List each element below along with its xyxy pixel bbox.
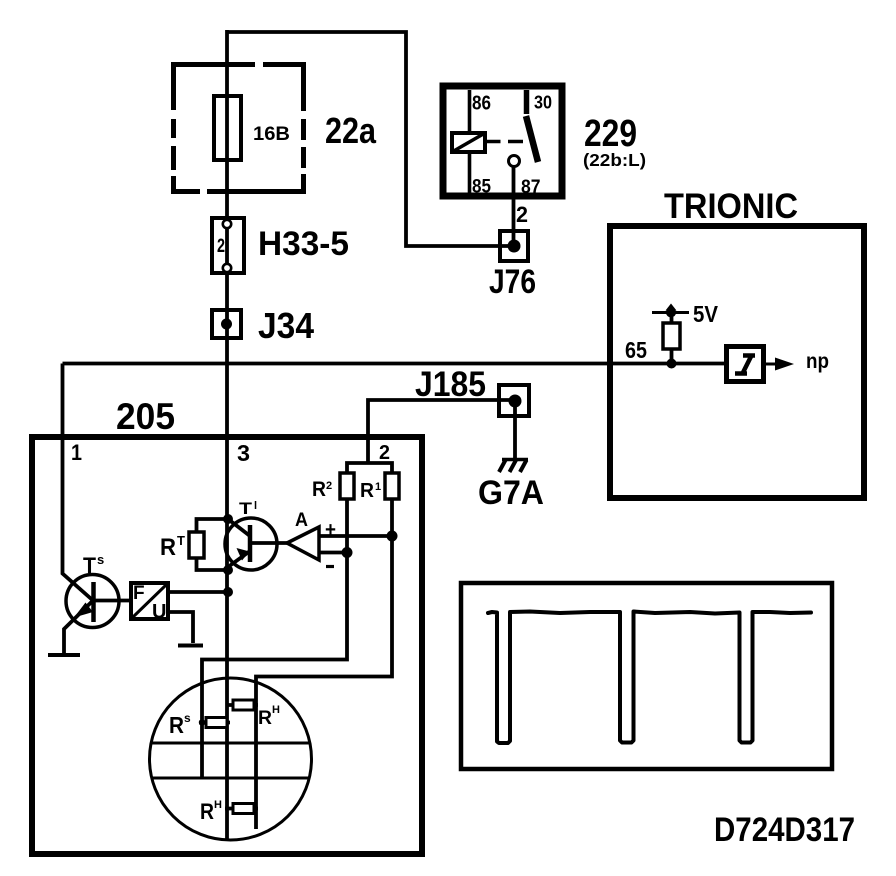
svg-text:22a: 22a: [325, 110, 377, 151]
svg-text:R: R: [200, 799, 214, 824]
svg-text:2: 2: [217, 236, 225, 257]
svg-text:(22b:L): (22b:L): [583, 150, 646, 170]
svg-text:A: A: [295, 510, 308, 531]
svg-text:65: 65: [625, 337, 647, 363]
svg-text:87: 87: [521, 177, 541, 198]
svg-text:F: F: [133, 583, 145, 604]
svg-text:2: 2: [516, 202, 528, 227]
svg-text:G7A: G7A: [478, 474, 544, 512]
svg-text:TRIONIC: TRIONIC: [664, 187, 798, 226]
svg-text:5V: 5V: [693, 301, 719, 327]
svg-text:R: R: [312, 478, 326, 501]
svg-text:229: 229: [584, 113, 637, 155]
svg-text:+: +: [325, 519, 336, 541]
svg-text:R: R: [258, 708, 272, 729]
svg-text:30: 30: [534, 93, 552, 113]
svg-text:1: 1: [375, 481, 381, 493]
svg-text:s: s: [184, 711, 191, 725]
svg-text:2: 2: [379, 442, 390, 464]
svg-text:D724D317: D724D317: [714, 811, 855, 849]
svg-text:np: np: [806, 350, 829, 373]
svg-text:l: l: [254, 500, 257, 512]
svg-text:J76: J76: [489, 263, 536, 301]
svg-text:3: 3: [237, 440, 250, 466]
svg-text:T: T: [177, 533, 185, 548]
svg-text:16B: 16B: [253, 124, 290, 145]
svg-text:R: R: [360, 480, 375, 502]
svg-text:H: H: [214, 799, 222, 811]
svg-text:205: 205: [116, 396, 175, 437]
svg-text:U: U: [152, 601, 166, 623]
svg-text:85: 85: [472, 177, 491, 198]
svg-text:R: R: [160, 534, 176, 561]
svg-text:H33-5: H33-5: [258, 225, 349, 263]
svg-text:J34: J34: [258, 305, 314, 346]
svg-text:H: H: [272, 704, 280, 716]
svg-text:2: 2: [326, 480, 332, 492]
svg-text:86: 86: [472, 93, 491, 115]
svg-text:R: R: [169, 712, 184, 738]
svg-text:J185: J185: [415, 365, 486, 404]
svg-text:s: s: [97, 552, 104, 567]
svg-text:T: T: [239, 499, 253, 518]
svg-text:1: 1: [71, 440, 82, 465]
svg-text:T: T: [83, 553, 97, 578]
